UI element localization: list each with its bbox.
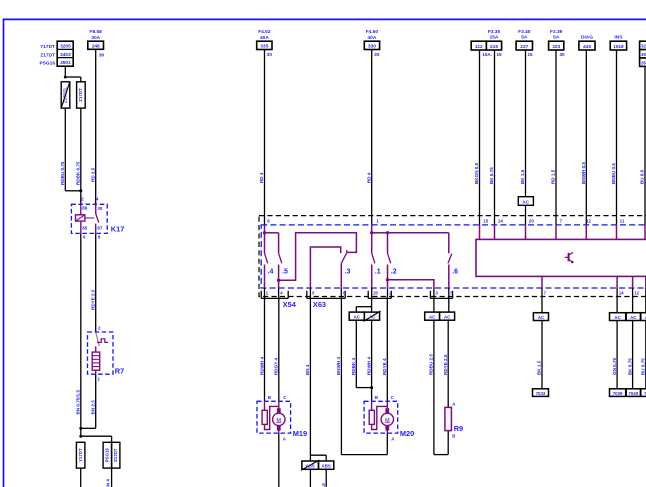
wire BKGN 0.5 from box 112 to fusebox pin 15 [474,50,479,225]
connector AC / AC (crossed) feeding M20 [349,311,380,321]
connector pins 20,2 below fusebox [368,288,392,298]
svg-text:K17: K17 [111,225,125,234]
wire BNWH 4 from X63.6 down and right to motor M20 pin A [336,297,387,455]
node boxes at right edge (clipped) [640,41,646,66]
svg-text:M19: M19 [293,429,307,438]
fusebox top pin numbers [267,218,625,223]
svg-text:GN 0.75: GN 0.75 [612,357,617,375]
svg-text:15A: 15A [490,35,499,41]
fuse F3.40 5A (box 227) [516,29,533,57]
wire from pin 20 jogging into connector AC pair [356,297,371,313]
contact .3 inside fusebox [310,247,350,288]
svg-text:Y17DT: Y17DT [40,44,55,50]
svg-text:.1: .1 [375,268,381,275]
svg-text:35: 35 [641,61,646,66]
svg-text:PSG16: PSG16 [40,60,56,66]
svg-text:7039: 7039 [613,391,623,396]
svg-text:BU 0.75: BU 0.75 [641,358,646,375]
fuse F2.39 5A (box 323) [549,29,565,57]
wire RD 4 from fuse 335 down to fusebox pin 6 [259,50,264,225]
wire RDWH 4 from X54.1 to motor M19 pin B [259,297,264,402]
svg-text:AC: AC [523,200,530,205]
resistor R9 [445,402,463,439]
wire RDBK 4 from AC down, bends right to M20 pin B node [351,320,372,387]
svg-text:BNWH 4: BNWH 4 [336,356,341,375]
svg-text:.5: .5 [282,268,288,275]
svg-text:3403: 3403 [60,52,71,58]
wire RD 1.5 from box 323 to fusebox pin 7 [551,50,556,225]
transistor symbol inside module [565,252,574,263]
svg-text:C: C [283,395,286,400]
svg-text:.3: .3 [345,268,351,275]
wire BK 1.5 from AC down to ground 7033 [537,321,542,389]
wire BK 1.5 from box 227 to fusebox pin 20, with inline connector AC [520,50,525,225]
control box inner outline (blue dashed) [261,225,646,288]
svg-text:323: 323 [552,44,560,50]
connector AC / AC feeding resistor R9 [425,297,455,321]
wire RDGY 4 from X54.4 to motor M19 pin C [274,297,279,402]
relay K17 [71,197,124,240]
svg-text:AC: AC [429,314,436,319]
svg-text:11: 11 [620,218,625,223]
svg-text:PSG16: PSG16 [105,448,110,463]
svg-text:INS: INS [614,35,623,41]
svg-text:BK 1.5: BK 1.5 [537,360,542,375]
svg-text:F3.35: F3.35 [488,29,501,35]
svg-text:12: 12 [634,291,639,296]
svg-text:R9: R9 [454,424,463,433]
svg-text:30A: 30A [91,35,100,41]
svg-text:14: 14 [619,291,624,296]
svg-text:F4.50: F4.50 [366,29,379,35]
wire GN 0.75 to ground 7039 [612,321,617,389]
svg-text:AC: AC [354,314,361,319]
fuse/relay box outer outline (black dashed) [259,216,646,297]
contact .6 inside fusebox [388,233,459,288]
svg-text:30: 30 [97,206,102,211]
variant box Z17DTL (crossed out) [61,82,70,108]
svg-text:R7: R7 [115,367,124,376]
svg-text:RDBU 2.5: RDBU 2.5 [429,354,434,375]
svg-text:.2: .2 [391,268,397,275]
svg-text:3501: 3501 [60,60,71,66]
variant box Y17DT (bottom) [76,442,85,487]
svg-text:AC: AC [630,315,637,320]
variant boxes PSG16 / Z17DT (bottom) [103,442,120,468]
svg-text:RDWH 4: RDWH 4 [366,356,371,375]
svg-text:30: 30 [374,52,380,58]
connector X54 (pins 1,4) [261,288,297,309]
svg-text:5A: 5A [553,35,560,41]
wire BK 0.75 from box 215 to fusebox pin 14 [489,50,494,225]
svg-text:15A.: 15A. [482,52,492,57]
svg-text:BN 4: BN 4 [305,364,310,375]
contact .4 inside fusebox [263,225,274,288]
svg-text:F4.52: F4.52 [258,29,271,35]
svg-text:RD 4: RD 4 [366,172,371,183]
ground box 7033 [533,389,549,397]
internal bus from contact .5 output feeding contact .3 [279,233,357,280]
svg-text:.6: .6 [452,268,458,275]
svg-text:20: 20 [373,291,378,296]
resistor R7 (heater resistor with thermal cutout) [88,325,125,381]
svg-text:RD 4: RD 4 [259,172,264,183]
svg-text:87: 87 [97,226,102,231]
wire BU 0.75 to ground (clipped) [641,321,646,389]
motor M19 (radiator fan) [257,395,307,441]
svg-text:248: 248 [92,44,100,50]
svg-text:AC: AC [538,315,545,320]
wire RD 4 from fuse 330 down to fusebox pin 1 [366,50,371,225]
wire RDYE 2.5 from AC down to R9 pin A [443,320,448,407]
svg-text:F3.40: F3.40 [518,29,531,35]
wire RDBU 2.5 from AC down, bends right to R9 pin B [429,320,449,454]
svg-text:B: B [452,434,455,439]
svg-text:B: B [375,395,378,400]
svg-text:BK 0.75: BK 0.75 [627,358,632,375]
svg-text:5A: 5A [521,35,528,41]
svg-text:RDBU 0.75: RDBU 0.75 [60,161,65,185]
svg-text:335: 335 [260,44,268,50]
svg-text:85: 85 [82,226,87,231]
svg-text:15: 15 [497,52,503,57]
wire BNWH 0.5 from DIAG to fusebox pin 12 [581,50,586,225]
svg-text:227: 227 [520,44,528,50]
wire BNBU 0.5 from INS to fusebox pin 11 [611,50,616,225]
svg-text:B: B [268,395,271,400]
svg-text:RDYE 2.5: RDYE 2.5 [443,354,448,375]
wire RDWH 4 from crossed AC down to M20 pin B [366,320,373,401]
wire BU 0.5 from right-edge boxes down [640,66,645,225]
svg-text:RD 2.5: RD 2.5 [91,167,96,182]
svg-text:BN 4: BN 4 [105,479,110,487]
junction and split to bottom variant boxes [79,435,111,443]
connector X63 (pins 3,6) [307,288,346,309]
fuse F8.58 30A (box 248) [88,29,105,59]
svg-text:12: 12 [586,218,591,223]
wire from box 3501 to variant split junction [64,66,81,82]
svg-text:RDGY 4: RDGY 4 [274,358,279,375]
connector ABS (crossed) / ABS [301,460,334,487]
svg-text:BNWH 0.5: BNWH 0.5 [581,162,586,184]
ground boxes 7039 / 7040 / 70.. (clipped) [610,389,646,397]
svg-text:215: 215 [490,44,498,50]
svg-text:RDBK 4: RDBK 4 [351,357,356,375]
svg-text:C: C [391,395,394,400]
svg-text:Z17DT: Z17DT [78,88,83,102]
svg-text:BNBU 0.5: BNBU 0.5 [611,163,616,184]
svg-text:445: 445 [583,44,591,50]
svg-text:BKGN 0.5: BKGN 0.5 [474,162,479,184]
svg-text:RDYE 2.5: RDYE 2.5 [91,289,96,310]
wire RDYE 2.5 from K17 pin 8 down to resistor R7 [91,233,96,332]
wire BN 4 from X63.3 down to ABS connectors [305,297,326,462]
contact .1 inside fusebox [370,225,381,288]
svg-text:30: 30 [267,52,273,58]
contact .5 inside fusebox [265,233,288,288]
node box DIAG (445) [579,35,595,51]
svg-text:AC: AC [444,314,451,319]
svg-text:A: A [283,436,286,441]
svg-text:7040: 7040 [628,391,638,396]
electronic module inside fusebox [476,239,646,276]
svg-text:ABS: ABS [322,463,331,468]
svg-text:330: 330 [368,44,376,50]
svg-text:AC: AC [614,315,621,320]
svg-text:DIAG: DIAG [581,35,593,41]
svg-text:15: 15 [483,218,488,223]
svg-text:14: 14 [498,218,503,223]
wire YE 0.5 below ABS (clipped) [321,483,326,487]
svg-text:YE 0.5: YE 0.5 [321,483,326,487]
svg-text:7033: 7033 [536,391,546,396]
module bottom pin numbers 7,14,12 [542,288,646,297]
svg-text:RDYE 4: RDYE 4 [382,358,387,375]
wire BN 0.75/1.5 from K17 pin 6 down to junction [75,233,80,436]
svg-text:A: A [391,436,394,441]
svg-text:A: A [452,402,455,407]
svg-text:RDWH 4: RDWH 4 [259,356,264,375]
wire RDBU 0.75 from Z17DTL down, merging right [60,108,81,191]
svg-text:112: 112 [475,44,483,50]
svg-text:3205: 3205 [60,44,71,50]
svg-text:RD 1.5: RD 1.5 [551,169,556,184]
wire BN 2.5 from R7 pin 1 down, bends left to junction [79,374,95,430]
contact .2 inside fusebox [372,231,434,288]
node box INS (1518) [610,35,626,51]
svg-text:Z17DT: Z17DT [40,52,55,58]
svg-text:BK 0.75: BK 0.75 [489,167,494,184]
fuse F3.35 15A (boxes 112 / 215) [471,29,502,57]
connector AC inline on wire BK 1.5 [518,197,533,206]
svg-text:40A: 40A [260,35,269,41]
fuse F4.52 40A (box 335) [257,29,273,58]
wire RDBK 0.75 from Z17DT down to relay K17 pin 2 [76,108,83,204]
svg-text:BN 2.5: BN 2.5 [90,400,95,415]
svg-text:.4: .4 [268,268,274,275]
svg-text:AC: AC [369,314,376,319]
svg-text:M20: M20 [400,429,414,438]
connector AC on module pin 7 wire [533,297,548,321]
node box 3205/3403/3501 with harness labels Y17DT/Z17DT/PSG16 [40,41,74,66]
variant box Z17DT [77,82,86,108]
wire from M19 pin A down to edge [278,433,280,487]
svg-text:86: 86 [82,206,87,211]
svg-text:1518: 1518 [613,44,624,49]
module top pin stubs (purple) [480,225,646,240]
svg-text:F2.39: F2.39 [550,29,563,35]
motor M20 (radiator fan) [364,395,414,441]
svg-text:BU 0.5: BU 0.5 [640,169,645,184]
connector AC trio on module pins 14,12 [610,297,646,321]
wire RD 2.5 from fuse 248 down to relay K17 pin 4 [91,49,96,204]
svg-text:BN 0.75/1.5: BN 0.75/1.5 [75,390,80,415]
connector pins 3,5 below fusebox [430,288,453,298]
wire RDYE 4 from pin 2 down to M20 pin C [382,297,387,402]
svg-text:32: 32 [641,44,646,49]
svg-text:15: 15 [528,52,534,57]
svg-text:20: 20 [529,218,534,223]
wire BN 4 continuing below variant boxes [105,442,111,487]
svg-text:X63: X63 [313,300,326,309]
svg-text:BK 1.5: BK 1.5 [520,169,525,184]
svg-text:30: 30 [641,52,646,57]
svg-text:30: 30 [560,52,566,57]
module bottom pin stubs (purple) [542,276,646,288]
svg-text:X54: X54 [283,300,297,309]
svg-text:40A: 40A [367,35,376,41]
svg-text:RDBK 0.75: RDBK 0.75 [76,161,81,185]
svg-text:30: 30 [99,53,105,59]
wire BK 0.75 to ground 7040 [627,321,632,389]
svg-text:ABS: ABS [305,463,314,468]
svg-text:Z17DT: Z17DT [113,448,118,462]
svg-text:F8.58: F8.58 [90,29,103,35]
svg-text:Y17DT: Y17DT [78,448,83,462]
fuse F4.50 40A (box 330) [364,29,380,58]
